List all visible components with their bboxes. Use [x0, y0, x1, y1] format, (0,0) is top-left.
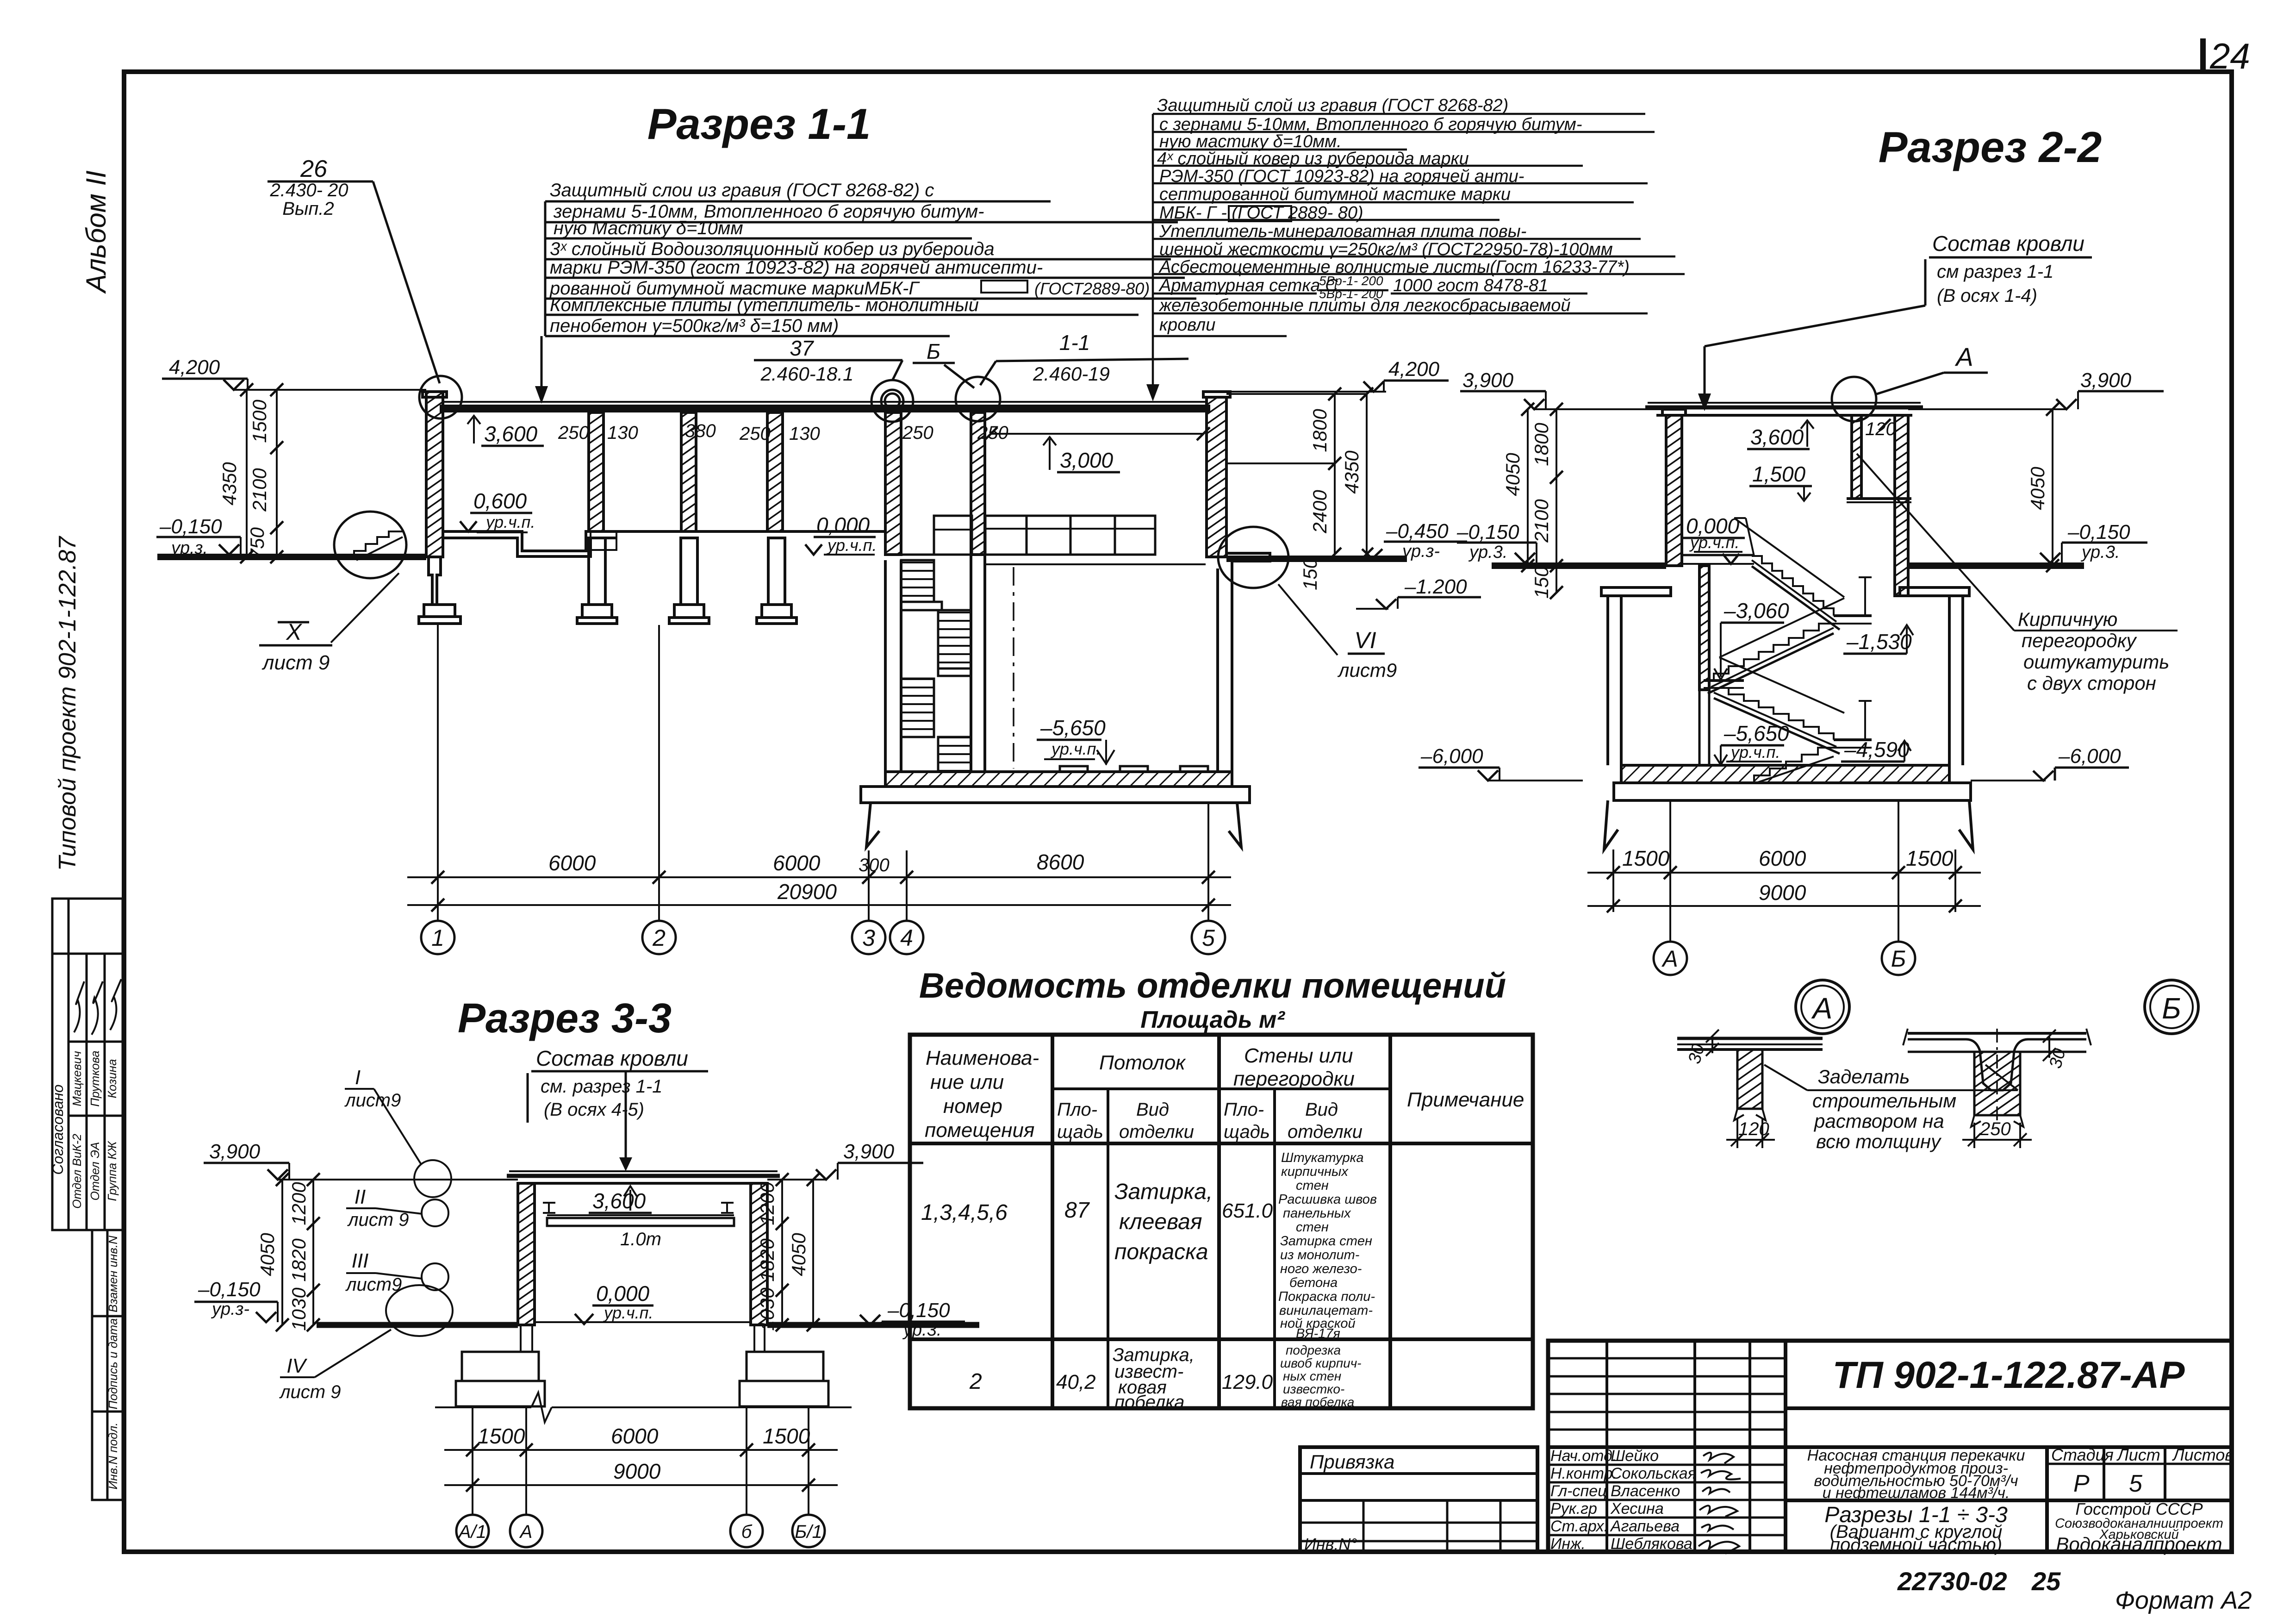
svg-text:6000: 6000: [1759, 846, 1806, 870]
left margin: inventory boxes: [92, 1230, 123, 1500]
svg-text:А: А: [519, 1522, 533, 1542]
svg-text:б: б: [741, 1522, 753, 1542]
svg-text:120: 120: [1738, 1119, 1769, 1139]
svg-text:лист9: лист9: [344, 1090, 401, 1111]
svg-text:оштукатурить: оштукатурить: [2023, 651, 2169, 673]
leader to X label: [331, 573, 399, 643]
level 3.900 left: [1460, 390, 1546, 393]
pit bottom slab 2-2: [1621, 765, 1949, 783]
svg-text:известко-: известко-: [1283, 1382, 1344, 1396]
level 3.900 right: [1908, 391, 2164, 572]
svg-text:ную мастику δ=10мм.: ную мастику δ=10мм.: [1159, 132, 1342, 151]
svg-text:лист 9: лист 9: [279, 1382, 341, 1402]
svg-text:–0,450: –0,450: [1386, 520, 1449, 543]
svg-text:см разрез 1-1: см разрез 1-1: [1937, 262, 2053, 282]
floor line inside 2-2: [1682, 554, 1754, 556]
svg-text:щадь: щадь: [1224, 1122, 1270, 1142]
svg-text:Пло-: Пло-: [1057, 1099, 1097, 1120]
svg-text:Согласовано: Согласовано: [50, 1084, 66, 1174]
pit wall left: [1606, 596, 1609, 765]
svg-text:Инв.N подл.: Инв.N подл.: [106, 1423, 120, 1490]
right dims 3-3: [767, 1163, 965, 1331]
svg-text:2.460-18.1: 2.460-18.1: [760, 363, 854, 385]
svg-text:3,900: 3,900: [1462, 369, 1514, 392]
svg-text:Привязка: Привязка: [1310, 1451, 1394, 1473]
pit bottom slab: [885, 772, 1232, 787]
svg-text:–0,150: –0,150: [1456, 521, 1519, 543]
svg-text:Шейко: Шейко: [1611, 1447, 1659, 1465]
svg-text:Покраска поли-: Покраска поли-: [1278, 1289, 1375, 1304]
svg-text:3,900: 3,900: [209, 1140, 261, 1163]
svg-text:ур.ч.п.: ур.ч.п.: [1689, 533, 1739, 552]
table row 1: [921, 1180, 1273, 1264]
detail B drawing: [1903, 1029, 2091, 1148]
svg-text:4,200: 4,200: [1388, 358, 1440, 381]
svg-text:250: 250: [902, 423, 933, 443]
svg-text:1.0т: 1.0т: [620, 1229, 661, 1249]
svg-text:Кирпичную: Кирпичную: [2018, 608, 2117, 630]
signature column labels: [1550, 1447, 1696, 1553]
svg-text:лист 9: лист 9: [347, 1210, 409, 1230]
svg-text:марки РЭМ-350 (гост 10923-82): марки РЭМ-350 (гост 10923-82) на горячей…: [550, 257, 1043, 278]
svg-text:железобетонные плиты для легко: железобетонные плиты для легкосбрасываем…: [1158, 296, 1571, 315]
svg-text:–0,150: –0,150: [2067, 521, 2130, 543]
svg-text:Гл-спец: Гл-спец: [1550, 1482, 1607, 1500]
level -1.200 right: [1398, 596, 1481, 599]
svg-text:А/1: А/1: [458, 1522, 486, 1542]
landing -4.590: [1834, 738, 1872, 741]
svg-text:1200: 1200: [288, 1182, 310, 1225]
svg-text:Рук.гр: Рук.гр: [1550, 1500, 1597, 1518]
svg-text:–5,650: –5,650: [1724, 721, 1789, 745]
svg-text:Взамен инв.N: Взамен инв.N: [106, 1236, 120, 1312]
svg-text:Формат А2: Формат А2: [2115, 1587, 2252, 1614]
svg-text:26: 26: [300, 156, 327, 182]
svg-text:Инж.: Инж.: [1550, 1535, 1586, 1553]
svg-text:отделки: отделки: [1119, 1122, 1194, 1142]
svg-text:6000: 6000: [611, 1424, 659, 1448]
svg-text:щадь: щадь: [1057, 1122, 1103, 1142]
svg-text:Власенко: Власенко: [1611, 1482, 1680, 1500]
svg-text:3,600: 3,600: [1750, 425, 1804, 449]
wall axis 4 lower: [970, 531, 972, 772]
svg-text:Площадь м²: Площадь м²: [1140, 1006, 1285, 1033]
level -0.450 right: [1384, 541, 1467, 543]
left roof spec text block: [549, 180, 1150, 336]
footing B 3-3: [753, 1325, 755, 1352]
svg-text:4: 4: [900, 925, 913, 951]
steps inside detail X: [340, 531, 403, 558]
svg-text:строительным: строительным: [1812, 1090, 1956, 1112]
svg-text:1820: 1820: [288, 1238, 310, 1282]
stair flight S3: [901, 679, 934, 737]
svg-text:–6,000: –6,000: [2058, 745, 2121, 768]
level 4.200 right of section 1-1: [1230, 381, 1449, 392]
parapet cap axis 1: [423, 392, 447, 397]
pit right wall ledge: [1226, 553, 1270, 568]
svg-text:побелка: побелка: [1114, 1392, 1184, 1412]
roof note 3-3: [536, 1046, 688, 1120]
svg-text:–0,150: –0,150: [887, 1299, 950, 1322]
svg-text:–1.200: –1.200: [1404, 575, 1467, 598]
svg-text:0,600: 0,600: [473, 489, 527, 513]
svg-text:Козина: Козина: [105, 1059, 119, 1099]
svg-text:6000: 6000: [773, 851, 821, 875]
organization: [2055, 1499, 2223, 1555]
svg-text:номер: номер: [943, 1095, 1002, 1118]
svg-text:Арматурная сетка С: Арматурная сетка С: [1158, 276, 1338, 295]
partition note with leader: [2018, 608, 2169, 694]
svg-text:2100: 2100: [249, 468, 270, 512]
svg-text:Б/1: Б/1: [795, 1522, 822, 1542]
svg-text:2400: 2400: [1309, 490, 1331, 534]
svg-text:130: 130: [607, 423, 638, 443]
svg-text:Типовой проект 902-1-122.87: Типовой проект 902-1-122.87: [54, 536, 81, 871]
bottom dims section 2-2: [1587, 800, 1981, 942]
svg-text:Защитный слои из гравия (ГОСТ: Защитный слои из гравия (ГОСТ 8268-82) с: [550, 180, 934, 200]
pit base slab 2-2: [1614, 783, 1971, 800]
grid bubbles 3-3: [456, 1515, 825, 1547]
pedestal and footing under C1: [589, 538, 605, 605]
svg-text:4350: 4350: [218, 462, 240, 506]
svg-text:5: 5: [1202, 925, 1215, 951]
svg-text:Хесина: Хесина: [1610, 1500, 1664, 1518]
svg-text:Группа КЖ: Группа КЖ: [105, 1140, 119, 1201]
svg-text:клеевая: клеевая: [1119, 1210, 1202, 1234]
svg-text:вая побелка: вая побелка: [1281, 1395, 1354, 1409]
svg-text:–3,060: –3,060: [1724, 599, 1789, 623]
120 dim detail A: [1736, 1118, 1738, 1148]
svg-text:подрезка: подрезка: [1286, 1343, 1341, 1357]
svg-text:Р: Р: [2073, 1470, 2090, 1497]
svg-text:Инв.N°: Инв.N°: [1304, 1535, 1357, 1554]
binding box: [1300, 1447, 1537, 1552]
table row 2: [969, 1345, 1273, 1412]
svg-text:Альбом II: Альбом II: [81, 170, 112, 294]
svg-text:1200: 1200: [756, 1182, 778, 1225]
svg-text:ур.з.: ур.з.: [170, 538, 208, 558]
ground line left: [157, 554, 426, 560]
svg-text:3,900: 3,900: [2080, 369, 2132, 392]
pit base right wing: [1229, 803, 1241, 847]
svg-text:1500: 1500: [249, 400, 270, 443]
svg-text:II: II: [355, 1186, 366, 1208]
svg-text:Штукатурка: Штукатурка: [1281, 1150, 1364, 1165]
svg-text:1500: 1500: [763, 1424, 810, 1448]
signatures squiggles: [1699, 1453, 1741, 1554]
svg-text:Состав кровли: Состав кровли: [536, 1046, 688, 1070]
-1.530 mark: [1843, 653, 1907, 655]
pit ledge cap left: [1601, 587, 1671, 596]
detail circle on roof corner: [1832, 377, 1876, 421]
svg-text:250: 250: [739, 424, 771, 444]
svg-text:Подпись и дата: Подпись и дата: [106, 1318, 120, 1410]
svg-text:1800: 1800: [1309, 409, 1331, 452]
svg-text:87: 87: [1064, 1198, 1090, 1223]
svg-text:9000: 9000: [1759, 881, 1806, 905]
svg-text:250: 250: [1979, 1119, 2011, 1139]
svg-text:1-1: 1-1: [1059, 331, 1090, 355]
svg-text:22730-02: 22730-02: [1897, 1567, 2007, 1596]
svg-text:Отдел ВиК-2: Отдел ВиК-2: [70, 1134, 84, 1209]
svg-text:750: 750: [246, 527, 268, 560]
svg-text:ТП 902-1-122.87-АР: ТП 902-1-122.87-АР: [1833, 1354, 2185, 1396]
circles at roof nodes: [331, 376, 1338, 655]
svg-text:перегородку: перегородку: [2022, 630, 2138, 651]
level -0.150 right: [2062, 542, 2147, 544]
detail circle X: [334, 512, 406, 578]
level -6.000 right (shared with section 2-2 left): [1971, 768, 2129, 781]
svg-text:(В осях 1-4): (В осях 1-4): [1937, 286, 2037, 306]
svg-text:Разрез 2-2: Разрез 2-2: [1879, 123, 2102, 171]
svg-text:всю толщину: всю толщину: [1816, 1131, 1942, 1152]
I-section marks: [543, 1203, 555, 1213]
svg-text:651.0: 651.0: [1222, 1199, 1273, 1222]
floor strip: [535, 1321, 751, 1323]
pedestal and footing under axis 1: [429, 557, 441, 605]
svg-text:раствором на: раствором на: [1813, 1110, 1944, 1132]
svg-text:Агапьева: Агапьева: [1610, 1518, 1680, 1535]
column C3: [767, 412, 783, 531]
svg-text:1500: 1500: [1622, 846, 1670, 870]
svg-text:150: 150: [1299, 557, 1321, 590]
svg-text:3,900: 3,900: [843, 1140, 895, 1163]
svg-text:ур.ч.п.: ур.ч.п.: [1050, 739, 1101, 758]
leader arrow from right spec block to roof: [1152, 336, 1154, 384]
svg-text:250: 250: [977, 423, 1008, 443]
grid bubbles section 1-1: [421, 921, 1225, 954]
svg-text:37: 37: [790, 336, 814, 360]
svg-text:–0,150: –0,150: [159, 515, 222, 538]
svg-text:Наименова-: Наименова-: [926, 1047, 1039, 1069]
svg-text:40,2: 40,2: [1056, 1371, 1096, 1393]
svg-text:Примечание: Примечание: [1407, 1088, 1524, 1111]
svg-text:А: А: [1954, 342, 1973, 371]
ground line right of 2-2: [1908, 562, 2084, 569]
svg-text:швоб кирпич-: швоб кирпич-: [1280, 1356, 1362, 1370]
svg-text:3,600: 3,600: [592, 1189, 646, 1213]
detail A drawing: [1677, 1030, 2018, 1148]
stair landing L1: [901, 602, 942, 610]
pit base wings 2-2: [1604, 800, 1618, 849]
column C2: [681, 412, 696, 531]
stair landing L2: [938, 668, 971, 676]
svg-text:Потолок: Потолок: [1099, 1051, 1186, 1074]
stair flight 2-2 F1: [1752, 556, 1834, 616]
stair flight 2-2 F4: [1754, 748, 1834, 782]
-4.590 mark: [1841, 761, 1904, 763]
svg-text:3,000: 3,000: [1060, 448, 1114, 472]
svg-text:бетона: бетона: [1289, 1275, 1338, 1290]
svg-text:4350: 4350: [1341, 450, 1363, 494]
svg-text:ур.з-: ур.з-: [211, 1299, 249, 1319]
svg-text:3,600: 3,600: [484, 422, 538, 446]
svg-text:Шеблякова: Шеблякова: [1611, 1535, 1692, 1553]
svg-text:0,000: 0,000: [596, 1281, 650, 1305]
svg-text:380: 380: [685, 421, 716, 441]
centre axis dash line in machine hall: [1013, 567, 1014, 768]
landing -1.530: [1834, 614, 1872, 617]
left margin signatures: [74, 979, 121, 1035]
svg-text:4,200: 4,200: [169, 356, 220, 379]
svg-text:Заделать: Заделать: [1818, 1066, 1910, 1087]
svg-text:с двух сторон: с двух сторон: [2027, 672, 2156, 694]
bottom dims 3-3: [444, 1407, 838, 1515]
column axis A 3-3: [518, 1183, 535, 1325]
level -5.650 mark: [1037, 739, 1101, 741]
svg-text:1030: 1030: [756, 1287, 778, 1331]
svg-text:–0,150: –0,150: [198, 1278, 261, 1301]
svg-text:Вид: Вид: [1305, 1099, 1338, 1120]
svg-text:Вид: Вид: [1136, 1099, 1169, 1120]
svg-text:Разрез 1-1: Разрез 1-1: [647, 100, 871, 148]
svg-text:2.430- 20: 2.430- 20: [269, 180, 348, 200]
svg-text:2: 2: [969, 1369, 982, 1394]
rectangle placeholder in line 6: [981, 281, 1027, 293]
svg-text:4050: 4050: [1502, 453, 1524, 496]
svg-text:Сокольская: Сокольская: [1611, 1465, 1696, 1482]
ground line left of 2-2: [1492, 562, 1666, 569]
wall axis A section 2-2: [1666, 415, 1682, 566]
svg-text:1800: 1800: [1531, 423, 1552, 466]
level -0.150 left: [1457, 542, 1537, 544]
svg-text:ВЯ-17я: ВЯ-17я: [1296, 1326, 1340, 1341]
right side dims of section 1-1: [1226, 387, 1481, 609]
svg-text:Разрез 3-3: Разрез 3-3: [458, 995, 672, 1042]
svg-text:5: 5: [2129, 1470, 2143, 1497]
svg-text:Стадия: Стадия: [2051, 1445, 2114, 1464]
dim line chain left: [276, 390, 278, 557]
svg-text:перегородки: перегородки: [1233, 1068, 1355, 1090]
svg-text:Ст.арх.: Ст.арх.: [1550, 1518, 1608, 1535]
svg-text:(В осях 4-5): (В осях 4-5): [544, 1099, 644, 1120]
label X sheet 9: [261, 619, 1397, 681]
interior labels 2-2: [1686, 419, 1912, 762]
roof slab: [440, 405, 1210, 412]
handrail F2: [1719, 598, 1844, 657]
detail circles on left column 3-3: [414, 1160, 451, 1197]
roof top thin line: [443, 401, 1207, 403]
dim 4050 right: [2052, 409, 2053, 566]
svg-text:Расшивка швов: Расшивка швов: [1278, 1192, 1377, 1207]
level -0.150 mark left: [156, 536, 241, 538]
wall axis B section 2-2: [1895, 415, 1908, 596]
svg-text:20900: 20900: [777, 880, 837, 904]
crane beam 3-3: [547, 1214, 734, 1216]
svg-text:6000: 6000: [548, 851, 596, 875]
sheet number tick: [2200, 38, 2206, 71]
brick partition 120: [1852, 415, 1861, 499]
pedestal and footing under C3: [768, 538, 785, 605]
svg-text:пенобетон γ=500кг/м³ δ=150 мм: пенобетон γ=500кг/м³ δ=150 мм): [550, 316, 839, 336]
level -6.000 left of section 2-2: [1419, 768, 1583, 781]
project name: [1807, 1447, 2025, 1502]
svg-text:2: 2: [652, 925, 666, 951]
detail circle VI: [1218, 527, 1288, 588]
pit base left wing: [866, 803, 879, 847]
svg-text:из монолит-: из монолит-: [1280, 1248, 1359, 1262]
svg-text:Б: Б: [927, 339, 940, 363]
detail circle B: [2145, 980, 2198, 1034]
partition support shelf: [1847, 497, 1911, 500]
main stamp: [1548, 1341, 2232, 1552]
svg-text:ур.ч.п.: ур.ч.п.: [826, 536, 877, 555]
pedestal and footing under C2: [681, 538, 697, 605]
svg-text:ние или: ние или: [930, 1071, 1004, 1093]
ground line right: [1226, 556, 1407, 562]
svg-text:ных стен: ных стен: [1283, 1369, 1341, 1383]
-3.060 mark: [1721, 622, 1784, 624]
roof slab 3-3: [507, 1174, 780, 1178]
svg-text:Пруткова: Пруткова: [88, 1050, 102, 1106]
svg-text:129.0: 129.0: [1222, 1371, 1273, 1393]
svg-text:8600: 8600: [1037, 850, 1084, 874]
svg-text:1000 гост 8478-81: 1000 гост 8478-81: [1393, 276, 1548, 295]
svg-text:Мацкевич: Мацкевич: [70, 1051, 84, 1106]
svg-text:1: 1: [431, 925, 444, 951]
svg-text:ур.3.: ур.3.: [1468, 543, 1507, 562]
pit ledge cap right: [1900, 587, 1969, 596]
detail labels I-IV with leaders: [279, 1066, 409, 1402]
svg-text:ур.з-: ур.з-: [1401, 542, 1440, 561]
grid bubbles section 2-2: [1654, 942, 1915, 975]
roof layer ref 26: [269, 156, 348, 219]
wall axis 3 upper: [885, 412, 901, 555]
column axis 4 upper: [971, 412, 985, 555]
svg-text:подземной частью): подземной частью): [1830, 1535, 2002, 1555]
svg-text:4050: 4050: [788, 1233, 809, 1276]
stair flight S2: [938, 610, 971, 668]
roof panel ref 37: [760, 331, 1110, 385]
svg-text:2.460-19: 2.460-19: [1033, 363, 1110, 385]
svg-text:4050: 4050: [2027, 467, 2048, 510]
svg-text:1030: 1030: [288, 1287, 310, 1331]
stair flight S4: [938, 737, 971, 772]
svg-text:(ГОСТ2889-80): (ГОСТ2889-80): [1034, 279, 1150, 298]
svg-text:1,500: 1,500: [1752, 462, 1806, 486]
roof composition note at section 2-2: [1932, 231, 2084, 306]
interior labels 3-3: [592, 1189, 661, 1322]
stair flight 2-2 F3: [1714, 688, 1834, 740]
svg-text:ур.3.: ур.3.: [2080, 543, 2120, 562]
svg-text:Затирка,: Затирка,: [1114, 1180, 1213, 1204]
wall axis 3 lower to pit bottom: [884, 560, 887, 772]
roof thin line 3-3: [509, 1170, 778, 1172]
svg-text:стен: стен: [1296, 1178, 1329, 1193]
svg-text:0,000: 0,000: [816, 513, 870, 537]
bottom line with break mark: [435, 1406, 531, 1408]
dim line 4350 left: [246, 390, 248, 557]
svg-text:5Вр-1- 200: 5Вр-1- 200: [1319, 274, 1383, 288]
svg-text:и нефтешламов 144м³/ч.: и нефтешламов 144м³/ч.: [1823, 1484, 2010, 1502]
svg-text:Защитный слой из гравия (ГОСТ: Защитный слой из гравия (ГОСТ 8268-82): [1157, 96, 1508, 115]
svg-text:кровли: кровли: [1159, 315, 1215, 335]
svg-text:лист9: лист9: [345, 1274, 402, 1295]
dim line 3000: [991, 433, 1203, 435]
stairwell top box: [934, 516, 972, 555]
wall thickness labels: [558, 421, 1008, 444]
ground floor slab with sump: [443, 531, 885, 551]
stair flight S1: [901, 560, 934, 602]
right roof spec text block: [1157, 96, 1630, 335]
break ticks at slab ends: [1903, 1029, 2091, 1045]
svg-text:Пло-: Пло-: [1224, 1099, 1264, 1120]
svg-text:септированной битумной мастике: септированной битумной мастике марки: [1159, 185, 1511, 204]
dim 4050 left: [1527, 409, 1529, 566]
svg-text:ного железо-: ного железо-: [1280, 1262, 1362, 1276]
svg-text:Ведомость отделки помещений: Ведомость отделки помещений: [919, 966, 1506, 1006]
joint centre dash line detail B: [1996, 1029, 1998, 1120]
